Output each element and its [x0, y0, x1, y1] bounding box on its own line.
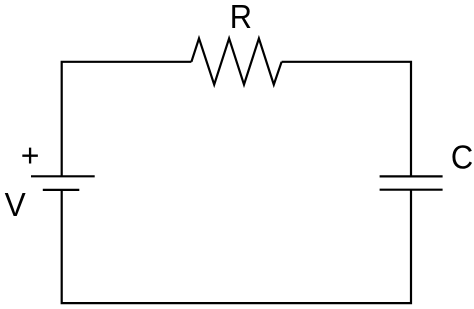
svg-text:V: V [5, 187, 27, 224]
svg-text:C: C [451, 139, 473, 176]
svg-text:+: + [21, 137, 40, 173]
svg-text:R: R [230, 0, 252, 36]
